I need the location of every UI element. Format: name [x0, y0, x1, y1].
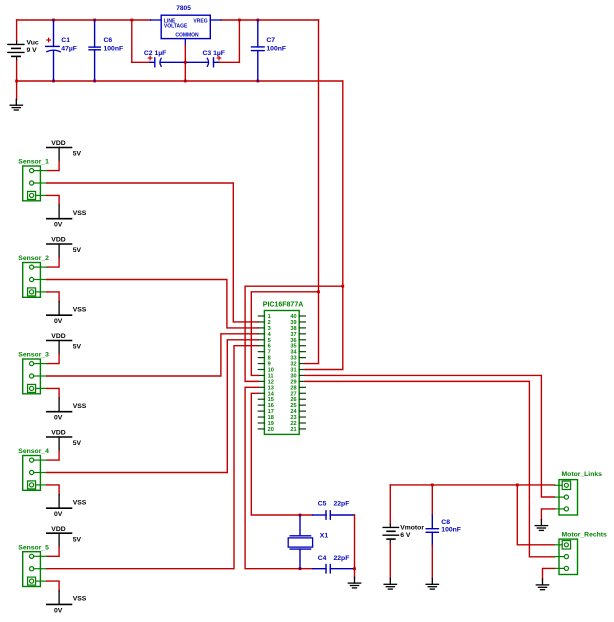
label Motor_Rechts — [562, 532, 608, 539]
svg-text:5V: 5V — [73, 151, 82, 158]
label VDD 5V (sensor 2) — [51, 237, 81, 255]
svg-text:29: 29 — [290, 379, 296, 385]
wire PIC pin 12 VSS to ground line — [245, 286, 343, 381]
svg-text:VSS: VSS — [73, 210, 87, 217]
label Sensor_2 — [18, 255, 49, 262]
label VSS 0V (sensor 5) — [54, 596, 87, 615]
node Vmotor rail junctions — [431, 484, 519, 487]
label Sensor_3 — [18, 352, 49, 359]
power terminal VSS 0V (sensor 1) — [47, 205, 72, 219]
label PIC16F877A — [263, 302, 303, 309]
polarity + of C3 — [217, 56, 221, 60]
capacitor C7 100nF — [252, 20, 265, 81]
svg-text:5V: 5V — [73, 536, 82, 543]
wire 5V rail down to PIC pin 32 VDD — [305, 20, 318, 364]
svg-text:Motor_Rechts: Motor_Rechts — [562, 532, 608, 539]
svg-text:C7: C7 — [266, 37, 275, 44]
label Motor_Links — [562, 471, 603, 478]
node COMMON junction — [184, 61, 187, 64]
svg-text:5V: 5V — [73, 440, 82, 447]
wire Motor_Rechts pin 3 to ground — [543, 568, 555, 579]
crystal X1 — [288, 515, 312, 569]
power terminal VSS 0V (sensor 3) — [47, 398, 72, 412]
label C3 1uF — [203, 50, 225, 57]
label VDD 5V (sensor 3) — [51, 333, 81, 351]
wire VDD to pin1 of sensor 1 — [47, 161, 59, 170]
wire VDD to pin1 of sensor 4 — [47, 451, 59, 460]
wire battery to ground — [16, 81, 18, 99]
wire VDD to pin1 of sensor 3 — [47, 354, 59, 363]
label X1 — [320, 532, 329, 539]
wire sensor 3 output to PIC pin 4 — [47, 334, 258, 376]
wire C3 to 5V rail — [220, 20, 239, 62]
label VSS 0V (sensor 3) — [54, 403, 87, 422]
svg-text:25: 25 — [290, 403, 296, 409]
svg-text:28: 28 — [290, 385, 296, 391]
svg-text:39: 39 — [290, 320, 296, 326]
svg-text:VSS: VSS — [73, 596, 87, 603]
svg-text:C8: C8 — [441, 519, 450, 526]
svg-text:0V: 0V — [54, 415, 63, 422]
svg-text:VSS: VSS — [73, 307, 87, 314]
power terminal VDD 5V (sensor 2) — [47, 244, 72, 258]
svg-text:PIC16F877A: PIC16F877A — [263, 302, 303, 309]
label C6 100nF — [104, 37, 124, 52]
pin label VREG — [193, 18, 207, 24]
svg-text:47µF: 47µF — [61, 45, 77, 52]
power terminal VDD 5V (sensor 4) — [47, 437, 72, 451]
svg-text:0V: 0V — [54, 511, 63, 518]
ground (C8) — [426, 579, 438, 590]
power terminal VDD 5V (sensor 3) — [47, 341, 72, 355]
svg-text:C5: C5 — [318, 501, 327, 508]
label VDD 5V (sensor 1) — [51, 140, 81, 158]
capacitor C8 100nF — [426, 485, 438, 579]
svg-text:VDD: VDD — [51, 526, 65, 533]
label VSS 0V (sensor 2) — [54, 307, 87, 326]
svg-text:33: 33 — [290, 356, 296, 362]
label VSS 0V (sensor 4) — [54, 500, 87, 519]
svg-text:VSS: VSS — [73, 403, 87, 410]
svg-text:27: 27 — [290, 391, 296, 397]
wire sensor 2 output to PIC pin 3 — [47, 280, 258, 328]
svg-text:Motor_Links: Motor_Links — [562, 471, 603, 478]
svg-text:C4: C4 — [318, 555, 327, 562]
svg-text:34: 34 — [290, 350, 297, 356]
connector Sensor_5 — [23, 552, 47, 587]
label Sensor_4 — [18, 448, 49, 455]
svg-text:20: 20 — [268, 427, 274, 433]
svg-text:37: 37 — [290, 332, 296, 338]
svg-text:VSS: VSS — [73, 500, 87, 507]
svg-text:VDD: VDD — [51, 237, 65, 244]
regulator U1 7805 — [151, 15, 222, 45]
label Sensor_1 — [18, 159, 49, 166]
wire PIC pin 14 OSC2 to crystal top — [251, 393, 312, 515]
svg-text:31: 31 — [290, 367, 296, 373]
svg-text:Vuc: Vuc — [27, 40, 39, 47]
wire 9V top rail — [17, 19, 151, 21]
svg-text:0V: 0V — [54, 318, 63, 325]
connector Motor_Links — [555, 480, 578, 515]
svg-text:0V: 0V — [54, 607, 63, 614]
pin label COMMON — [175, 33, 199, 39]
wire PIC pin 11 VDD to 5V line — [251, 292, 318, 376]
svg-text:C2 1µF: C2 1µF — [144, 50, 166, 57]
wire VDD to pin1 of sensor 2 — [47, 258, 59, 267]
wire crystal caps to ground — [354, 515, 356, 577]
power terminal VSS 0V (sensor 2) — [47, 302, 72, 316]
battery Vmotor 6V — [383, 485, 398, 579]
wire COMMON to ground rail — [184, 46, 186, 82]
capacitor C5 22pF — [313, 511, 355, 519]
power terminal VDD 5V (sensor 5) — [47, 533, 72, 547]
label C4 22pF — [318, 555, 350, 562]
label C5 22pF — [318, 501, 350, 508]
svg-text:C1: C1 — [61, 37, 70, 44]
node C4 ground junction — [353, 567, 356, 570]
polarity + of C2 — [148, 56, 152, 60]
svg-text:VDD: VDD — [51, 430, 65, 437]
node crystal bottom junction — [299, 567, 302, 570]
svg-text:5V: 5V — [73, 344, 82, 351]
label Vuc 9V — [27, 40, 39, 55]
connector Sensor_2 — [23, 263, 47, 298]
node top-rail junctions — [52, 19, 259, 22]
svg-text:7805: 7805 — [176, 5, 191, 12]
connector Motor_Rechts — [555, 539, 578, 574]
wire pin3 of sensor 4 to VSS — [47, 485, 59, 495]
wire ground rail down to PIC pin 31 VSS — [305, 81, 342, 369]
power terminal VSS 0V (sensor 4) — [47, 495, 72, 509]
label Vmotor 6V — [400, 525, 424, 540]
label C7 100nF — [266, 37, 286, 52]
label C1 47uF — [61, 37, 77, 52]
ground (battery Vuc) — [10, 99, 22, 110]
node bottom-rail junctions — [15, 80, 259, 83]
ground (Motor_Links) — [535, 520, 547, 531]
capacitor C1 47uF electrolytic — [46, 20, 61, 81]
wire Vmotor rail to Motor_Rechts pin 1 — [517, 485, 554, 545]
capacitor C2 1uF electrolytic — [150, 58, 185, 67]
svg-text:Sensor_2: Sensor_2 — [18, 255, 49, 262]
svg-text:COMMON: COMMON — [175, 33, 199, 39]
wire PIC pin 30 RD7 to Motor_Links pin 2 — [305, 375, 554, 497]
svg-text:0V: 0V — [54, 222, 63, 229]
wire 5V output rail — [221, 19, 318, 21]
svg-text:6 V: 6 V — [400, 532, 411, 539]
label VDD 5V (sensor 4) — [51, 430, 81, 448]
wire PIC pin 29 RD6 to Motor_Rechts pin 2 — [305, 381, 554, 556]
wire pin3 of sensor 5 to VSS — [47, 581, 59, 591]
svg-text:32: 32 — [290, 362, 296, 368]
pin label LINE VOLTAGE — [164, 18, 188, 29]
svg-text:VOLTAGE: VOLTAGE — [164, 24, 188, 30]
wire pin3 of sensor 2 to VSS — [47, 292, 59, 302]
svg-text:26: 26 — [290, 397, 296, 403]
svg-text:21: 21 — [290, 427, 296, 433]
svg-text:5V: 5V — [73, 247, 82, 254]
svg-text:VDD: VDD — [51, 140, 65, 147]
svg-text:23: 23 — [290, 415, 296, 421]
connector Sensor_4 — [23, 456, 47, 491]
svg-text:C6: C6 — [104, 37, 113, 44]
power terminal VSS 0V (sensor 5) — [47, 591, 72, 605]
svg-text:Sensor_5: Sensor_5 — [18, 544, 49, 551]
svg-text:100nF: 100nF — [266, 45, 286, 52]
capacitor C4 22pF — [313, 565, 355, 573]
svg-text:22pF: 22pF — [334, 501, 350, 508]
wire sensor 1 output to PIC pin 2 — [47, 183, 258, 322]
label C8 100nF — [441, 519, 461, 534]
svg-text:22: 22 — [290, 421, 296, 427]
svg-text:Sensor_1: Sensor_1 — [18, 159, 49, 166]
label VDD 5V (sensor 5) — [51, 526, 81, 544]
ground (Vmotor) — [384, 579, 396, 590]
wire 9V rail to C2 — [132, 20, 150, 62]
svg-text:Vmotor: Vmotor — [400, 525, 424, 532]
svg-text:30: 30 — [290, 373, 296, 379]
IC U2 PIC16F877A body — [264, 311, 299, 435]
label 7805 — [176, 5, 191, 12]
ground (Motor_Rechts) — [536, 579, 548, 590]
wire sensor 4 output to PIC pin 5 — [47, 340, 258, 473]
svg-text:38: 38 — [290, 326, 296, 332]
capacitor C3 1uF electrolytic — [185, 58, 220, 67]
svg-text:40: 40 — [290, 314, 296, 320]
svg-text:X1: X1 — [320, 532, 329, 539]
svg-text:Sensor_3: Sensor_3 — [18, 352, 49, 359]
node VDD junction — [317, 290, 320, 293]
wire VDD to pin1 of sensor 5 — [47, 547, 59, 556]
PIC pin numbers 1-40 — [268, 314, 298, 433]
polarity + of C1 — [47, 38, 51, 42]
wire ground bottom rail — [17, 80, 343, 82]
label C2 1uF — [144, 50, 166, 57]
wire PIC pin 13 OSC1 to crystal bottom — [245, 387, 313, 568]
svg-text:9 V: 9 V — [27, 47, 38, 54]
connector Sensor_3 — [23, 359, 47, 394]
svg-text:100nF: 100nF — [441, 526, 461, 533]
wire sensor 5 output to PIC pin 6 — [47, 346, 258, 569]
node crystal top junction — [299, 514, 302, 517]
wire Vmotor 6V rail — [390, 484, 554, 486]
ground (crystal) — [348, 577, 360, 588]
svg-text:VREG: VREG — [193, 18, 207, 24]
PIC pin stubs 1-40 — [258, 316, 305, 429]
wire pin3 of sensor 1 to VSS — [47, 195, 59, 205]
node VSS junction — [341, 285, 344, 288]
svg-text:24: 24 — [290, 409, 297, 415]
svg-text:22pF: 22pF — [334, 555, 350, 562]
label Sensor_5 — [18, 544, 49, 551]
capacitor C6 100nF — [89, 20, 100, 81]
label VSS 0V (sensor 1) — [54, 210, 87, 229]
svg-text:35: 35 — [290, 344, 296, 350]
svg-text:100nF: 100nF — [104, 45, 124, 52]
connector Sensor_1 — [23, 166, 47, 201]
svg-text:VDD: VDD — [51, 333, 65, 340]
wire Motor_Links pin 3 to ground — [541, 509, 554, 520]
svg-text:36: 36 — [290, 338, 296, 344]
power terminal VDD 5V (sensor 1) — [47, 148, 72, 162]
wire pin3 of sensor 3 to VSS — [47, 388, 59, 398]
svg-text:Sensor_4: Sensor_4 — [18, 448, 49, 455]
svg-text:C3 1µF: C3 1µF — [203, 50, 225, 57]
battery Vuc 9V — [8, 20, 24, 81]
